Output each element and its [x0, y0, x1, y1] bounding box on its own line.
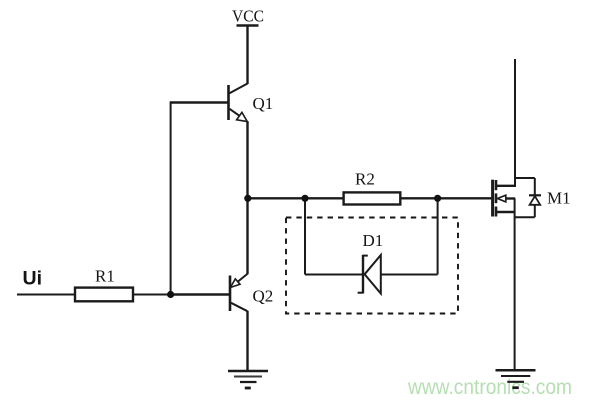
svg-text:R2: R2 — [355, 170, 375, 189]
svg-text:VCC: VCC — [232, 6, 264, 25]
svg-text:D1: D1 — [363, 231, 384, 250]
svg-text:Q1: Q1 — [253, 94, 274, 113]
svg-text:Ui: Ui — [23, 268, 43, 290]
svg-text:Q2: Q2 — [253, 286, 274, 305]
svg-text:R1: R1 — [95, 266, 115, 285]
svg-text:www.cntronics.com: www.cntronics.com — [407, 376, 572, 399]
svg-text:M1: M1 — [547, 189, 571, 208]
